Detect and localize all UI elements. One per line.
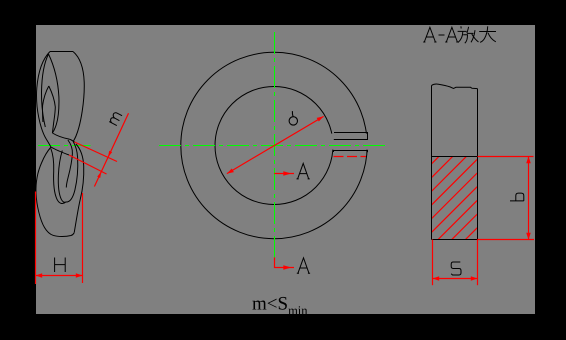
washer lower coil leaf left edge <box>58 151 65 203</box>
section bar right edge <box>477 89 479 240</box>
hanzi da <box>479 26 496 42</box>
slit upper jaw inner line <box>334 132 368 134</box>
dimension b arrow bottom <box>526 233 531 240</box>
slit upper jaw bottom line <box>334 139 368 141</box>
label A-A magnified <box>423 26 496 43</box>
dimension m dimension line <box>94 113 128 186</box>
diameter d arrow lower-left <box>227 169 234 174</box>
washer lower coil leaf right edge <box>66 142 78 203</box>
washer lower coil bottom edge <box>53 233 74 237</box>
dimension m arrow upper <box>108 151 112 158</box>
section bar bottom edge <box>432 239 478 241</box>
washer lower coil inner middle edge <box>66 140 72 188</box>
dimension m extension line A <box>75 142 118 162</box>
washer lower coil outer left edge <box>36 147 53 235</box>
dimension b arrow top <box>526 157 531 164</box>
dimension H extension line left <box>35 192 37 285</box>
hatching <box>425 125 555 246</box>
vertical centerline <box>274 32 276 257</box>
horizontal centerline <box>159 145 389 147</box>
label A (bottom) <box>297 258 310 274</box>
washer small inner arch right <box>49 86 56 133</box>
dimension m extension line B <box>69 155 107 174</box>
diameter d arrow upper-right <box>317 116 324 121</box>
dimension b extension bottom <box>478 239 535 241</box>
section bar top break line <box>432 84 478 89</box>
label m <box>109 112 122 126</box>
dimension b extension top <box>478 156 534 158</box>
hanzi fang <box>458 26 479 43</box>
label A (center) <box>297 163 310 179</box>
diameter d dimension line <box>227 116 324 173</box>
washer upper coil outer left edge <box>37 52 51 148</box>
inner circle <box>215 87 333 205</box>
dimension H dimension line <box>36 275 83 277</box>
label s <box>451 262 461 275</box>
dash <box>439 34 445 36</box>
dimension s arrow left <box>433 276 440 281</box>
section bar left edge <box>431 86 433 240</box>
letter A <box>423 27 436 42</box>
drawing sheet <box>36 25 535 314</box>
label b <box>510 193 524 201</box>
dimension H arrow left <box>36 273 43 278</box>
dimension H arrow right <box>76 273 83 278</box>
dimension H extension line right <box>82 193 84 283</box>
washer upper coil inner arch right <box>49 54 59 133</box>
letter A <box>445 27 458 42</box>
dimension s dimension line <box>433 278 478 280</box>
dimension b dimension line <box>528 157 530 240</box>
slit hidden edge (red dashed) <box>334 156 367 158</box>
hatch top boundary <box>432 156 478 158</box>
washer cut face upper step <box>52 133 74 142</box>
dimension s extension left <box>432 240 434 286</box>
washer upper coil top edge <box>50 51 73 53</box>
washer small inner arch left <box>43 86 49 122</box>
washer upper coil outer right edge <box>73 52 84 142</box>
washer lower coil inner left edge <box>51 149 66 204</box>
label H <box>55 258 66 273</box>
slit upper jaw end <box>367 133 369 140</box>
dimension m arrow lower <box>97 171 101 178</box>
label d <box>289 111 297 125</box>
section arrow A (center) <box>274 173 294 175</box>
slit lower jaw top line <box>334 151 368 153</box>
dimension s arrow right <box>471 276 478 281</box>
slit cover <box>330 134 371 150</box>
section arrow A (bottom) <box>275 257 295 267</box>
centerline left view <box>38 145 91 147</box>
outer circle <box>181 52 367 238</box>
dimension s extension right <box>477 240 479 286</box>
washer lower coil outer right edge <box>74 144 84 233</box>
washer cut face lower step <box>51 147 69 155</box>
washer upper coil inner arch left <box>41 54 48 127</box>
